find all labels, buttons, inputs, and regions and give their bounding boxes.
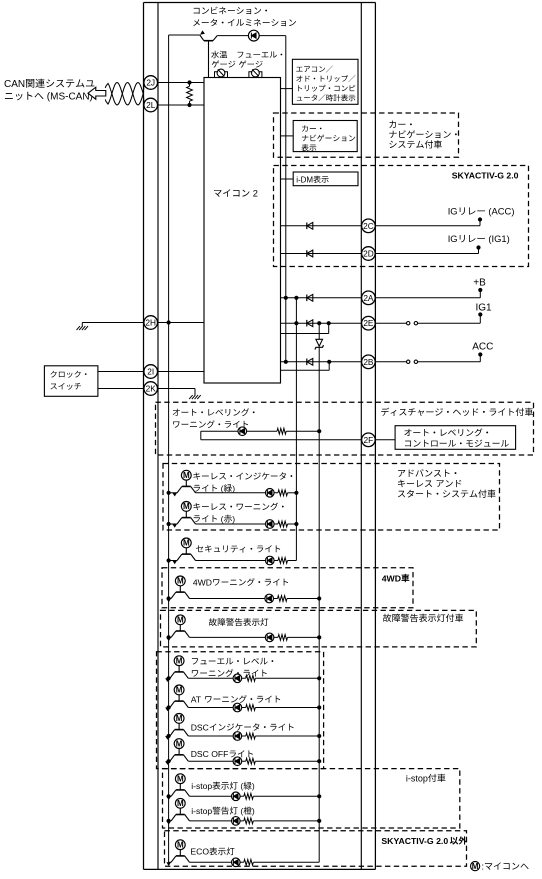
4WD option box (dashed) — [162, 568, 413, 608]
micon output M (security light) — [181, 538, 191, 548]
lamp meter illumination — [248, 30, 259, 41]
svg-text:2L: 2L — [146, 100, 156, 110]
label IG relay IG1 — [448, 233, 510, 244]
micon output M (4WD warning light) — [175, 576, 185, 586]
wire 2D (IG relay IG1) — [281, 253, 362, 255]
svg-text:IG: IG — [448, 233, 458, 244]
transistor driver (malfunction indicator lamp) — [166, 625, 189, 642]
junction lamp bus (4WD warning light) — [317, 596, 321, 600]
microcomputer 2 (micon 2) — [204, 78, 281, 384]
svg-text:M: M — [472, 862, 479, 871]
wire 2F to auto leveling module — [375, 439, 395, 441]
wire DSC OFF light from ground bus — [167, 759, 171, 763]
label +B — [473, 278, 486, 289]
wire 2L to micon — [157, 104, 204, 106]
svg-text:2C: 2C — [363, 221, 374, 231]
lamp ECO indicator light — [232, 858, 241, 867]
wire malfunction indicator lamp lamp — [190, 635, 320, 641]
lamp security light — [266, 556, 275, 565]
wire i-stop warning light orange from ground bus — [167, 819, 172, 823]
aircon/odo-trip display box — [292, 59, 358, 104]
label malfunction indicator lamp — [209, 618, 269, 626]
wire auto leveling lamp — [201, 428, 319, 440]
wire micon to i-DM display — [281, 178, 294, 180]
bus B (keyless lamp feed) — [295, 298, 297, 561]
label IG1 — [476, 303, 493, 314]
micon sub-output to 2B — [281, 362, 330, 371]
branch 2C to IG relay ACC — [375, 217, 482, 225]
terminal 2L — [144, 98, 158, 112]
lamp keyless indicator light green — [266, 489, 275, 498]
wire keyless indicator light green lamp — [196, 490, 297, 496]
junction lamp bus (i-stop warning light orange) — [317, 819, 321, 823]
svg-text::: : — [482, 861, 485, 871]
transistor driver (ECO indicator light) — [166, 849, 189, 866]
svg-text:(IG1): (IG1) — [486, 233, 510, 244]
junction bus B / 2A — [294, 296, 298, 300]
svg-text:(: ( — [238, 781, 243, 791]
junction bus A / 2B — [284, 360, 288, 364]
wire 2J to micon — [157, 82, 204, 84]
terminal 2I — [144, 365, 158, 379]
ECO option box (dashed) — [165, 831, 467, 867]
i-DM display box — [293, 172, 358, 186]
label ECO indicator light — [190, 847, 234, 857]
i-stop option box (dashed) — [163, 769, 460, 828]
wire ECO indicator light from ground bus — [169, 861, 172, 863]
svg-text:4WD: 4WD — [382, 573, 401, 583]
svg-text:2D: 2D — [363, 249, 374, 259]
wire 2C (IG relay ACC) — [281, 225, 362, 227]
wire 4WD warning light from ground bus — [167, 596, 172, 600]
svg-text:SKYACTIV-G 2.0: SKYACTIV-G 2.0 — [452, 171, 519, 181]
svg-text:M: M — [183, 539, 190, 548]
svg-text:ACC: ACC — [472, 342, 493, 353]
MIL option box (dashed) — [161, 610, 477, 647]
micon output M (DSC indicator light) — [174, 714, 184, 724]
transistor driver (DSC indicator light) — [165, 723, 188, 740]
label i-stop indicator light green — [191, 781, 255, 791]
label CAN related system units — [4, 79, 94, 103]
svg-text:DSC OFF: DSC OFF — [191, 749, 229, 759]
wire AT warning light lamp — [188, 705, 319, 711]
wire 4WD warning light lamp — [190, 596, 320, 602]
wire micon to aircon display — [281, 88, 293, 90]
label 4WD vehicles — [382, 573, 410, 583]
label ACC — [472, 342, 493, 353]
branch 2D to IG relay IG1 — [375, 245, 481, 253]
bus A (+B/ACC feed) — [285, 36, 287, 362]
svg-text:M: M — [176, 739, 183, 748]
terminal 2B — [362, 355, 376, 369]
car navigation display box — [293, 121, 357, 152]
svg-text:M: M — [183, 502, 190, 511]
label advanced keyless and start system — [398, 469, 496, 498]
bus C (warning lamp feed) — [318, 347, 320, 862]
label keyless indicator light green — [194, 483, 235, 493]
micon output M (keyless indicator light green) — [181, 470, 191, 480]
svg-text:M: M — [177, 616, 184, 625]
svg-text:(: ( — [218, 483, 223, 493]
lamp 4WD warning light — [265, 594, 274, 603]
label MIL equipped vehicles — [383, 614, 463, 622]
wire 2I to micon — [157, 371, 204, 373]
left connector strip line — [157, 3, 159, 870]
svg-text:2I: 2I — [147, 367, 154, 377]
terminal 2H — [144, 316, 158, 330]
svg-text:): ) — [232, 483, 235, 493]
micon output M (malfunction indicator lamp) — [175, 615, 185, 625]
svg-text:ECO: ECO — [190, 847, 209, 857]
label i-stop equipped vehicles — [406, 773, 446, 783]
inline connector on IG1 wire — [375, 322, 480, 325]
svg-text:+B: +B — [473, 278, 486, 289]
wire micon to navigation display — [281, 135, 294, 137]
transistor driver (i-stop warning light orange) — [166, 808, 189, 825]
label car navigation system equipped — [389, 121, 457, 149]
svg-text:4WD: 4WD — [193, 577, 212, 587]
arrow to CAN units — [88, 87, 106, 99]
diode on 2C line — [307, 222, 313, 229]
label DSC indicator light — [191, 722, 294, 732]
label water temp gauge — [211, 51, 235, 68]
micon output M (keyless warning light red) — [181, 502, 191, 512]
terminal 2D — [362, 247, 376, 261]
terminal 2E — [362, 316, 376, 330]
advanced keyless option box (dashed) — [163, 464, 500, 531]
transistor driver (AT warning light) — [165, 695, 188, 712]
junction 2H / left bus — [167, 320, 171, 324]
wire 2H to micon — [157, 322, 204, 324]
svg-text:M: M — [176, 714, 183, 723]
terminal 2C — [362, 219, 376, 233]
branch to ACC feed — [478, 352, 482, 361]
water temp gauge movement — [215, 69, 228, 77]
svg-text:(: ( — [218, 514, 223, 524]
wire clock switch to 2I — [98, 371, 144, 373]
transistor driver (i-stop indicator light green) — [166, 783, 189, 800]
legend M to microcomputer — [471, 861, 529, 871]
transistor driver (security light) — [172, 548, 195, 565]
terminal 2A — [362, 291, 376, 305]
label fuel gauge — [237, 51, 282, 67]
terminal 2F — [362, 433, 376, 447]
micon output M (ECO indicator light) — [175, 840, 185, 850]
svg-text:2E: 2E — [363, 318, 374, 328]
wire malfunction indicator lamp from ground bus — [167, 635, 172, 639]
label IG relay ACC — [448, 206, 515, 217]
label fuel level warning light — [192, 658, 273, 665]
label except SKYACTIV-G 2.0 — [381, 836, 467, 846]
label keyless warning light red — [193, 503, 283, 511]
label AT warning light — [191, 694, 280, 704]
svg-text:): ) — [232, 514, 235, 524]
lamp auto leveling warning — [238, 427, 247, 436]
transistor illumination — [200, 30, 217, 77]
junction lamp bus (i-stop indicator light green) — [317, 794, 321, 798]
inline connector on ACC wire — [375, 360, 480, 363]
label 4WD warning light — [193, 577, 288, 587]
wire keyless indicator light green from ground bus — [167, 491, 178, 495]
svg-text:i-stop: i-stop — [191, 806, 212, 816]
label security light — [196, 545, 280, 552]
label i-stop warning light orange — [191, 806, 255, 816]
lamp fuel level warning light — [233, 674, 242, 683]
transistor driver (keyless indicator light green) — [172, 480, 195, 497]
auto leveling control module box — [395, 426, 515, 450]
wire 2F — [201, 439, 362, 441]
wire i-stop indicator light green lamp — [190, 793, 320, 799]
ground for clock switch — [189, 392, 201, 400]
wire keyless warning light red lamp — [196, 521, 297, 527]
svg-text:2: 2 — [250, 189, 258, 199]
warning lamp group box (dashed) — [157, 652, 324, 769]
discharge headlight option box (dashed) — [156, 402, 534, 455]
label combination meter illumination — [193, 7, 296, 27]
wire ECO indicator light lamp — [190, 859, 320, 865]
branch to IG1 feed — [478, 312, 482, 323]
left ground bus (2H) — [168, 35, 170, 862]
label fuel level warning light — [192, 669, 267, 677]
CAN terminating resistor — [187, 80, 193, 107]
wire DSC indicator light lamp — [188, 733, 319, 739]
wire 2A (+B) — [281, 297, 362, 299]
lamp malfunction indicator lamp — [265, 633, 274, 642]
lamp AT warning light — [233, 703, 242, 712]
svg-text:IG1: IG1 — [476, 303, 493, 314]
svg-text:M: M — [177, 799, 184, 808]
svg-text:): ) — [252, 781, 255, 791]
svg-text:M: M — [183, 471, 190, 480]
wire i-stop warning light orange lamp — [190, 818, 320, 824]
clock switch box — [44, 366, 98, 397]
wire illumination lamp — [217, 35, 286, 37]
micon output M (DSC OFF light) — [174, 739, 184, 749]
wire illumination base from left bus — [169, 34, 200, 36]
svg-text:(ACC): (ACC) — [486, 206, 515, 217]
svg-text:i-stop: i-stop — [191, 781, 212, 791]
wire 2E (IG1) — [281, 322, 362, 324]
junction lamp bus (AT warning light) — [317, 705, 321, 709]
svg-text:2J: 2J — [146, 78, 155, 88]
svg-text:2F: 2F — [364, 435, 374, 445]
label auto leveling warning light — [173, 408, 255, 428]
diode on 2A line — [307, 294, 313, 301]
junction lamp bus (fuel level warning light) — [317, 676, 321, 680]
transistor driver (DSC OFF light) — [165, 748, 188, 765]
junction lamp bus / auto leveling — [317, 429, 321, 433]
transistor driver (4WD warning light) — [166, 586, 189, 603]
svg-text:i-stop: i-stop — [406, 773, 428, 783]
junction bus A / 2A — [284, 296, 288, 300]
lamp i-stop indicator light green — [232, 792, 241, 801]
lamp DSC indicator light — [233, 732, 242, 741]
svg-text:SKYACTIV-G 2.0: SKYACTIV-G 2.0 — [381, 836, 448, 846]
wire i-stop indicator light green from ground bus — [167, 794, 172, 798]
transistor driver (fuel level warning light) — [165, 665, 188, 682]
junction zener / 2E — [317, 321, 321, 325]
zener diode to lamp bus — [315, 323, 324, 349]
junction 2E sub-branch — [327, 321, 331, 325]
label keyless indicator light green — [193, 472, 292, 479]
combination meter housing frame — [144, 3, 376, 870]
svg-text:M: M — [177, 774, 184, 783]
wire fuel level warning light lamp — [188, 675, 319, 681]
junction 2B sub-branch — [327, 360, 331, 364]
wire clock switch to 2K — [98, 388, 144, 390]
wire 2K to ground — [157, 389, 195, 392]
svg-text:): ) — [252, 806, 255, 816]
svg-text:(: ( — [238, 806, 243, 816]
label SKYACTIV-G 2.0 — [452, 171, 519, 181]
car navigation option box (dashed) — [274, 113, 459, 157]
junction lamp bus (DSC indicator light) — [317, 734, 321, 738]
junction lamp bus (malfunction indicator lamp) — [317, 635, 321, 639]
wire keyless warning light red from ground bus — [167, 522, 178, 526]
junction lamp bus (keyless warning light red) — [294, 522, 298, 526]
svg-text:CAN: CAN — [4, 79, 25, 90]
wire fuel level warning light from ground bus — [167, 676, 171, 680]
svg-text:2K: 2K — [146, 384, 157, 394]
lamp DSC OFF light — [233, 757, 242, 766]
wire ground to 2H — [82, 322, 144, 324]
svg-text:2A: 2A — [363, 293, 374, 303]
terminal 2K — [144, 382, 158, 396]
svg-text:M: M — [177, 577, 184, 586]
svg-text:M: M — [177, 840, 184, 849]
lamp i-stop warning light orange — [232, 817, 241, 826]
label discharge headlight equipped — [381, 408, 533, 416]
wire DSC indicator light from ground bus — [167, 734, 171, 738]
fuel gauge movement — [249, 69, 262, 77]
diode on 2E line — [307, 320, 313, 327]
svg-text:M: M — [176, 656, 183, 665]
label keyless warning light red — [194, 514, 235, 524]
ground for meter (left) — [77, 323, 89, 331]
junction bus B / 2E — [294, 321, 298, 325]
diode on 2D line — [307, 250, 313, 257]
junction lamp bus (keyless indicator light green) — [294, 491, 298, 495]
branch 2A to +B — [375, 288, 482, 298]
svg-text:DSC: DSC — [191, 722, 209, 732]
micon output M (fuel level warning light) — [174, 656, 184, 666]
label DSC OFF light — [191, 749, 253, 759]
svg-text:(MS-CAN): (MS-CAN) — [44, 92, 93, 103]
junction lamp bus (DSC OFF light) — [317, 759, 321, 763]
lamp keyless warning light red — [266, 520, 275, 529]
SKYACTIV-G 2.0 option box (dashed) — [274, 166, 529, 267]
diode on 2B line — [307, 358, 313, 365]
twisted pair CAN wires — [105, 83, 145, 106]
micon sub-output to 2E — [281, 323, 329, 333]
wire security light from ground bus — [167, 558, 178, 562]
svg-text:M: M — [176, 686, 183, 695]
svg-text:i-DM: i-DM — [296, 175, 313, 184]
svg-text:2H: 2H — [145, 318, 156, 328]
terminal 2J — [144, 76, 158, 90]
wire 2B (ACC) — [281, 361, 362, 363]
micon output M (AT warning light) — [174, 685, 184, 695]
wire DSC OFF light lamp — [188, 758, 319, 764]
svg-text:IG: IG — [448, 206, 458, 217]
transistor driver (keyless warning light red) — [172, 511, 195, 528]
svg-text:AT: AT — [191, 694, 204, 704]
wire security light lamp — [196, 558, 297, 564]
wire AT warning light from ground bus — [167, 705, 171, 709]
svg-text:2B: 2B — [363, 357, 374, 367]
micon output M (i-stop indicator light green) — [175, 774, 185, 784]
micon output M (i-stop warning light orange) — [175, 798, 185, 808]
right connector strip line — [360, 3, 362, 870]
